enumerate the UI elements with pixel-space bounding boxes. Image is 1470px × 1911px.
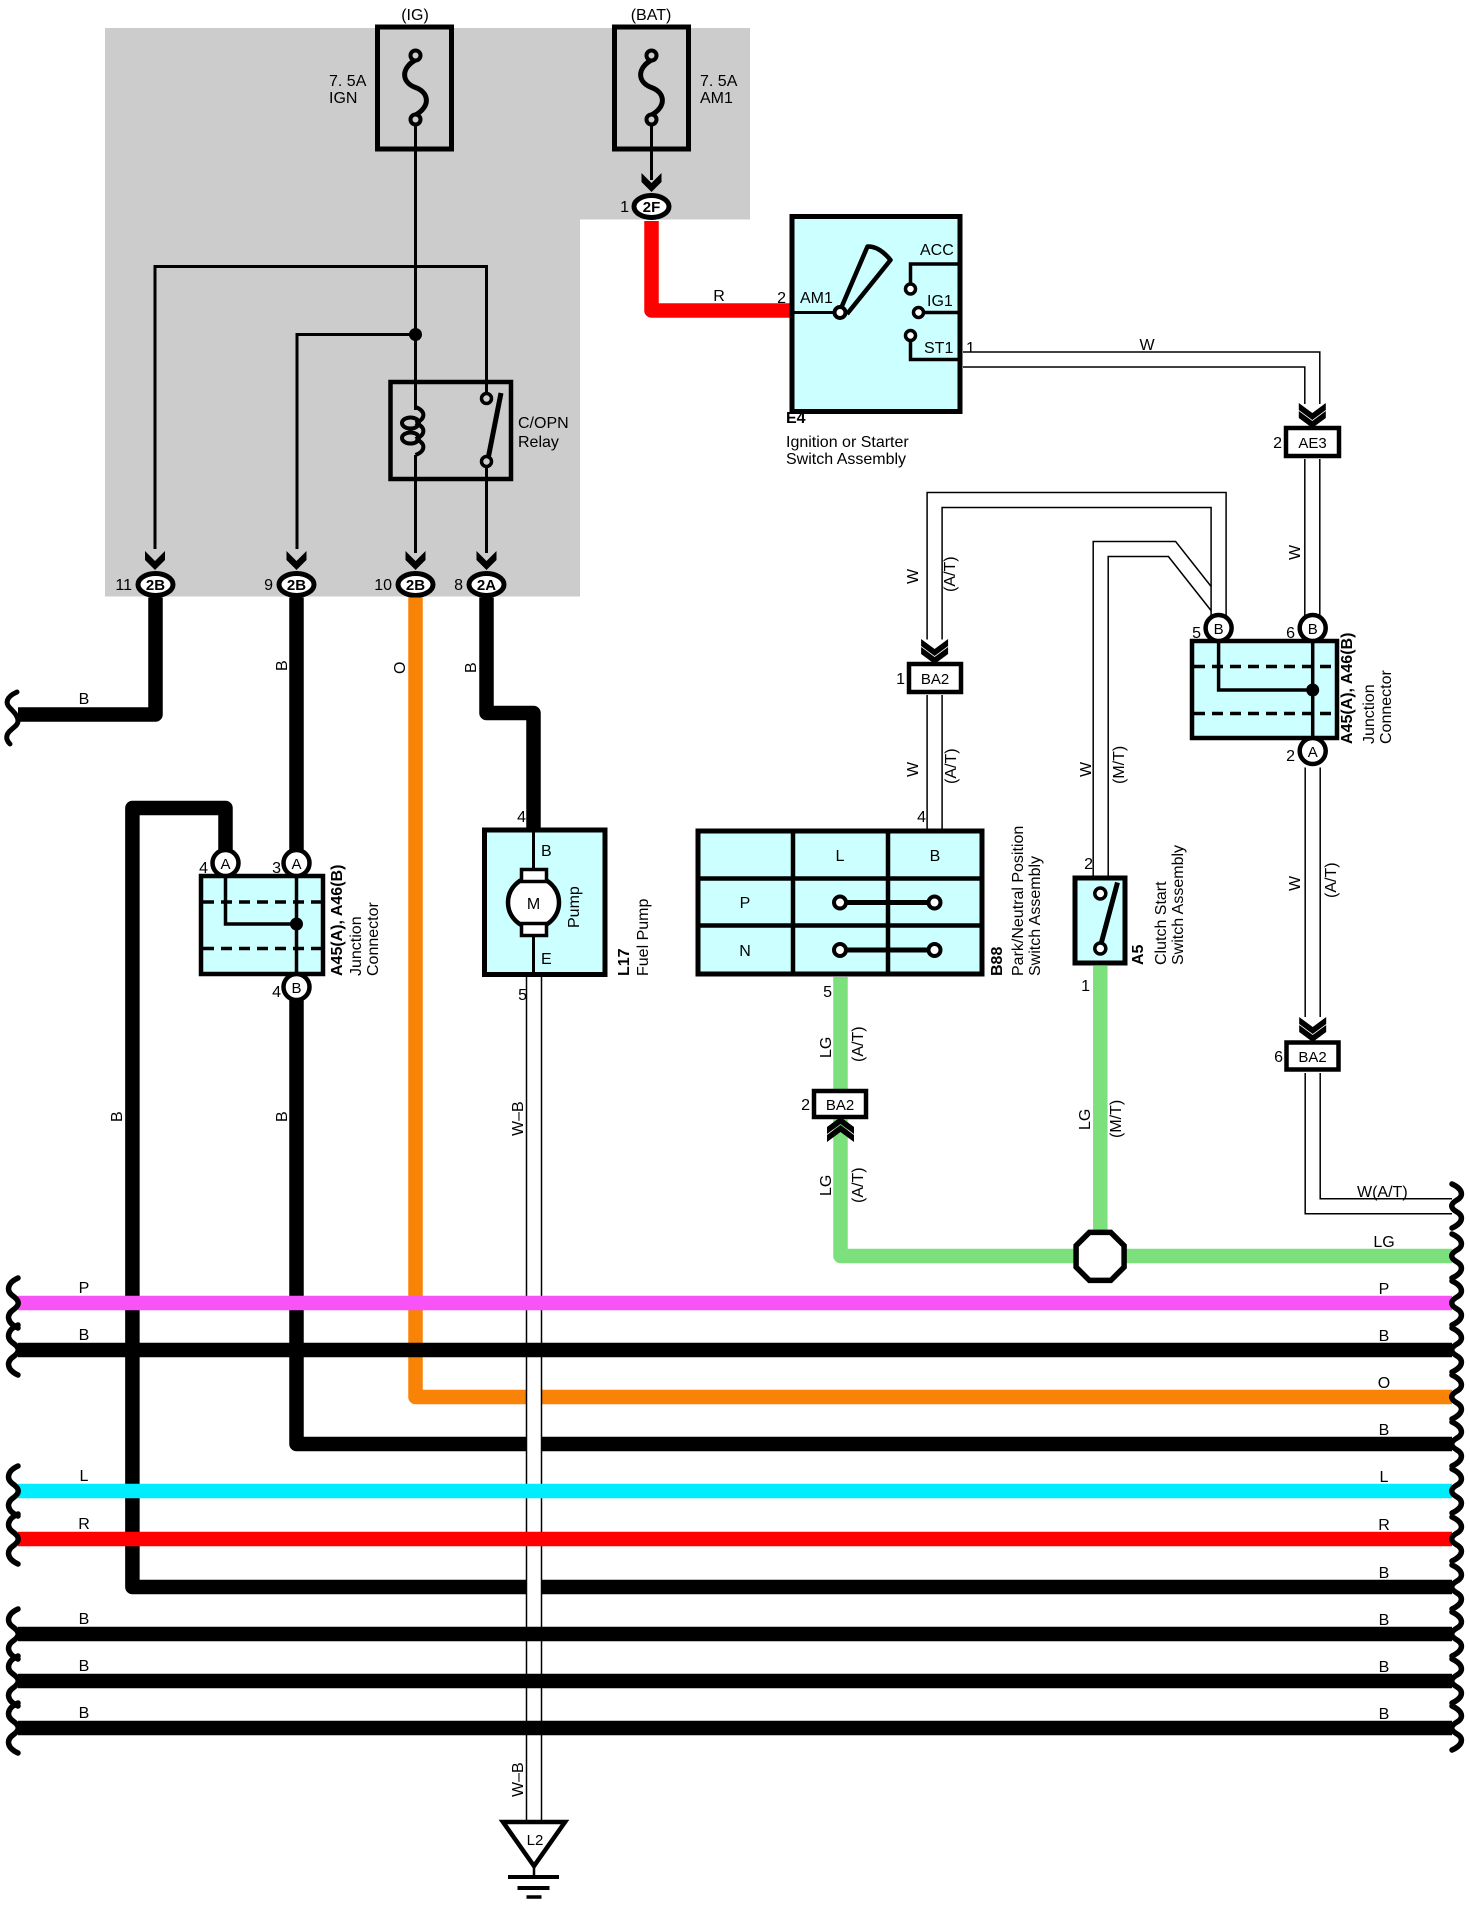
svg-text:R: R [713,288,725,305]
junction left dashed lines [203,902,321,949]
svg-text:E4: E4 [786,410,806,427]
svg-text:W: W [1078,761,1095,777]
wire W M/T from A5 up and diagonal to junction B5 (white wire) [1101,549,1217,880]
break symbol L left [9,1466,19,1516]
svg-text:M: M [527,896,540,913]
wire branch to 9-2B [297,335,416,550]
E4 key lever [842,246,891,314]
connector arrow above 10-2B [406,551,426,570]
svg-text:A45(A), A46(B): A45(A), A46(B) [329,865,346,976]
svg-text:B: B [463,662,480,673]
svg-text:IG1: IG1 [927,293,953,310]
fuse AM1 7.5A [615,27,689,149]
connector arrow double chevron above BA2-1 [921,639,948,664]
connector box 2 BA2 [814,1091,866,1117]
svg-text:L2: L2 [527,1832,544,1849]
break symbol B8 right [1452,1612,1462,1656]
svg-text:Switch Assembly: Switch Assembly [786,451,906,468]
svg-text:Connector: Connector [1378,670,1395,744]
svg-text:E: E [541,951,552,968]
svg-text:Connector: Connector [365,902,382,976]
svg-text:(A/T): (A/T) [943,748,960,784]
svg-text:W: W [905,761,922,777]
svg-text:P: P [740,895,751,912]
svg-text:4: 4 [517,809,526,826]
B88 P contact [834,897,941,909]
break symbol LG right [1452,1234,1462,1278]
svg-text:W: W [1139,337,1155,354]
svg-text:6: 6 [1274,1049,1283,1066]
svg-text:B88: B88 [989,947,1006,976]
E4 ignition or starter switch assembly box [792,217,960,412]
svg-text:W–B: W–B [510,1101,527,1136]
svg-text:B: B [930,848,941,865]
svg-text:N: N [739,943,751,960]
wire LG from B88 pin5 to BA2-2 [833,977,848,1089]
svg-text:2B: 2B [287,577,306,594]
svg-text:7. 5A: 7. 5A [329,73,367,90]
svg-text:2: 2 [801,1097,810,1114]
break symbol B3 left [9,1325,19,1375]
node junction dot IGN branch [409,328,422,341]
junction connector A45/A46 right box [1192,641,1337,738]
svg-text:5: 5 [518,987,527,1004]
svg-text:Ignition or Starter: Ignition or Starter [786,434,909,451]
wire IGN fuse to relay coil [414,124,417,410]
connector box 1 BA2 [909,664,961,692]
svg-text:B: B [274,1111,291,1122]
fuel pump motor [508,870,559,936]
break symbol B7 right [1452,1565,1462,1609]
svg-text:Clutch Start: Clutch Start [1153,881,1170,965]
break symbol B9 right [1452,1659,1462,1703]
bus L horizontal [18,1484,1452,1499]
junction right pin 6B circle [1300,615,1326,641]
wire B from junction pin 4B down to B bus 4 [297,998,1453,1444]
bus R horizontal [18,1532,1452,1547]
svg-text:W: W [905,568,922,584]
svg-text:L: L [80,1468,89,1485]
svg-text:B: B [1379,1612,1390,1629]
svg-text:B: B [1308,621,1318,638]
wire LG from BA2-2 down to LG bus [841,1120,1453,1257]
svg-text:W–B: W–B [510,1762,527,1797]
svg-text:6: 6 [1286,625,1295,642]
svg-text:Junction: Junction [1361,684,1378,744]
break symbol B8 left [9,1609,19,1659]
wire BAT fuse to 2F [650,124,653,180]
wire B from 9-2B down to junction pin 3A [289,598,304,853]
svg-text:B: B [79,1658,90,1675]
svg-text:4: 4 [272,984,281,1001]
svg-text:ST1: ST1 [924,340,953,357]
relay C/OPN box [391,382,512,479]
svg-text:AM1: AM1 [800,290,833,307]
E4 ST1 contact [906,331,961,360]
svg-text:7. 5A: 7. 5A [700,73,738,90]
A5 switch [1095,883,1118,955]
break symbol left of 11-2B wire [7,692,18,744]
svg-text:B: B [79,1611,90,1628]
bus B3 horizontal [18,1343,1452,1358]
svg-text:A: A [1308,744,1318,761]
svg-text:B: B [1379,1422,1390,1439]
svg-text:(BAT): (BAT) [631,7,672,24]
svg-text:(M/T): (M/T) [1111,746,1128,784]
svg-text:LG: LG [818,1175,835,1196]
A5 clutch start switch box [1075,878,1125,963]
svg-text:9: 9 [264,577,273,594]
svg-text:3: 3 [272,860,281,877]
connector box 6 BA2 [1287,1043,1339,1070]
break symbol W(A/T) right [1452,1184,1462,1228]
E4 AM1 contact line [792,311,836,314]
svg-text:5: 5 [823,984,832,1001]
break symbol B10 right [1452,1706,1462,1750]
svg-text:W(A/T): W(A/T) [1357,1184,1408,1201]
connector arrow double chevron below BA2-2 (pointing up) [827,1117,854,1142]
wire relay coil to 10-2B [414,455,417,553]
svg-text:O: O [1378,1375,1390,1392]
break symbol B10 left [9,1703,19,1753]
break symbol B9 left [9,1656,19,1706]
wire W A/T from junction 2A down to BA2-6 and right break [1313,768,1452,1207]
bus B9 horizontal [18,1674,1452,1689]
svg-text:(A/T): (A/T) [1323,862,1340,898]
svg-text:B: B [109,1111,126,1122]
connector box 2 AE3 [1286,428,1339,456]
svg-text:AM1: AM1 [700,90,733,107]
junction block gray area [105,28,750,597]
break symbol O right [1452,1375,1462,1419]
svg-text:Fuel Pump: Fuel Pump [635,899,652,976]
E4 ACC contact [906,264,961,294]
svg-text:1: 1 [896,671,905,688]
wire LG from A5 pin1 down to octagon junction [1093,966,1108,1256]
fuel pump internal wire [532,830,535,974]
connector arrow double chevron above AE3 [1299,403,1326,428]
svg-text:Pump: Pump [566,886,583,928]
label L17 Fuel Pump (rotated) [616,899,652,976]
svg-text:O: O [392,662,409,674]
svg-text:(A/T): (A/T) [942,556,959,592]
svg-text:2: 2 [1286,748,1295,765]
svg-text:1: 1 [1081,978,1090,995]
connector oval 9 2B [279,574,314,596]
svg-text:BA2: BA2 [826,1097,854,1114]
wire B from 8-2A to fuel pump pin4 [487,598,534,832]
svg-text:Switch Assembly: Switch Assembly [1170,845,1187,965]
E4 IG1 contact [914,308,961,318]
svg-text:5: 5 [1192,625,1201,642]
bus P horizontal [18,1296,1452,1311]
junction left pin 4B circle [284,974,310,1000]
wire W A/T from BA2-1 up to junction B5 (white wire) [935,500,1219,640]
svg-text:A5: A5 [1130,944,1147,965]
relay coil [402,407,423,455]
junction left pin 4A circle [213,850,239,876]
connector oval 1 2F [634,196,669,218]
svg-text:B: B [274,660,291,671]
junction right pin 5B circle [1206,615,1232,641]
connector arrow above 8-2A [477,551,497,570]
break symbol B4 right [1452,1422,1462,1466]
wire W-B fuel pump to ground (white wire) [526,974,543,1822]
svg-text:2A: 2A [477,577,496,594]
svg-text:R: R [78,1516,90,1533]
svg-text:B: B [1379,1659,1390,1676]
wire B from 11-2B down-left to break [18,598,156,715]
svg-text:B: B [541,843,552,860]
svg-text:11: 11 [115,577,132,594]
svg-text:10: 10 [374,577,392,594]
svg-text:AE3: AE3 [1298,435,1326,452]
wire W from ST1 to AE3 (white wire) [963,360,1312,405]
svg-text:(M/T): (M/T) [1108,1100,1125,1138]
svg-text:A: A [220,856,230,873]
junction right internal wiring [1219,641,1320,738]
svg-text:4: 4 [199,860,208,877]
connector oval 10 2B [398,574,433,596]
svg-text:2: 2 [1273,435,1282,452]
label B88 Park/Neutral Position Switch Assembly (rotated) [989,826,1044,976]
svg-text:Park/Neutral Position: Park/Neutral Position [1010,826,1027,976]
fuse IGN 7.5A [378,27,452,149]
svg-text:B: B [1379,1565,1390,1582]
svg-text:(A/T): (A/T) [850,1026,867,1062]
connector arrow above 11-2B [145,551,165,570]
svg-text:LG: LG [818,1037,835,1058]
svg-text:B: B [1379,1706,1390,1723]
node octagon junction LG [1076,1232,1124,1280]
break symbol R right [1452,1517,1462,1561]
svg-text:B: B [1379,1328,1390,1345]
svg-text:B: B [79,691,90,708]
B88 N contact [834,944,941,956]
svg-text:A45(A), A46(B): A45(A), A46(B) [1339,633,1356,744]
fuel pump L17 box [485,830,606,975]
junction right dashed lines [1194,667,1335,714]
label A5 Clutch Start Switch Assembly (rotated) [1130,845,1187,965]
connector arrow above 2F [642,173,662,192]
junction right pin 2A circle [1300,738,1326,764]
svg-text:W: W [1287,544,1304,560]
B88 park/neutral position switch box [698,831,982,974]
relay switch [482,393,502,467]
svg-text:L17: L17 [616,948,633,976]
svg-text:BA2: BA2 [921,671,949,688]
svg-text:P: P [79,1280,90,1297]
svg-text:B: B [1214,621,1224,638]
junction left pin 3A circle [284,850,310,876]
break symbol L right [1452,1469,1462,1513]
break symbol P left [9,1278,19,1328]
svg-text:BA2: BA2 [1298,1049,1326,1066]
svg-text:P: P [1379,1281,1390,1298]
svg-text:8: 8 [454,577,463,594]
break symbol R left [9,1514,19,1564]
svg-text:IGN: IGN [329,90,357,107]
svg-text:Relay: Relay [518,434,559,451]
svg-text:2: 2 [1084,856,1093,873]
wire W from AE3 to junction B6 (white wire) [1304,459,1321,616]
B88 cell labels [739,848,940,960]
svg-text:2F: 2F [643,199,661,216]
svg-text:4: 4 [917,809,926,826]
svg-text:B: B [291,980,301,997]
wire O from 10-2B down to O bus [416,598,1453,1398]
B88 grid lines [698,831,982,974]
svg-text:Switch Assembly: Switch Assembly [1027,856,1044,976]
svg-text:Junction: Junction [348,916,365,976]
bus B8 horizontal [18,1627,1452,1642]
svg-text:L: L [1380,1469,1389,1486]
junction connector A45/A46 left box [201,876,323,974]
wire W from BA2-1 down to B88 pin4 (white wire) [926,695,943,831]
svg-text:B: B [79,1327,90,1344]
connector arrow above 9-2B [287,551,307,570]
break symbol P right [1452,1281,1462,1325]
break symbol B3 right [1452,1328,1462,1372]
svg-text:2: 2 [777,290,786,307]
svg-text:(IG): (IG) [401,7,429,24]
wire red R from 2F to E4 [652,221,793,311]
svg-text:LG: LG [1373,1234,1394,1251]
label A45(A), A46(B) Junction Connector (left, rotated) [329,865,382,976]
svg-text:(A/T): (A/T) [850,1167,867,1203]
bus B10 horizontal [18,1721,1452,1736]
wire 11-2B to relay switch [155,267,487,550]
svg-text:C/OPN: C/OPN [518,415,569,432]
ground L2 symbol [503,1822,565,1897]
E4 pivot [835,307,846,318]
junction left internal wiring [226,876,304,974]
svg-text:2B: 2B [146,577,165,594]
svg-text:LG: LG [1077,1109,1094,1130]
svg-text:1: 1 [620,199,629,216]
wire B from junction pin 4A up-left and down to B bus 7 [132,808,1452,1587]
svg-text:2B: 2B [406,577,425,594]
wire relay switch to 8-2A [485,462,488,553]
label A45(A), A46(B) Junction Connector (right, rotated) [1339,633,1395,744]
svg-text:L: L [836,848,845,865]
svg-text:B: B [79,1705,90,1722]
svg-text:A: A [291,856,301,873]
connector oval 8 2A [469,574,504,596]
svg-text:R: R [1378,1517,1390,1534]
svg-text:ACC: ACC [920,242,954,259]
connector oval 11 2B [138,574,173,596]
svg-text:W: W [1287,875,1304,891]
connector arrow double chevron above BA2-6 [1299,1017,1326,1042]
